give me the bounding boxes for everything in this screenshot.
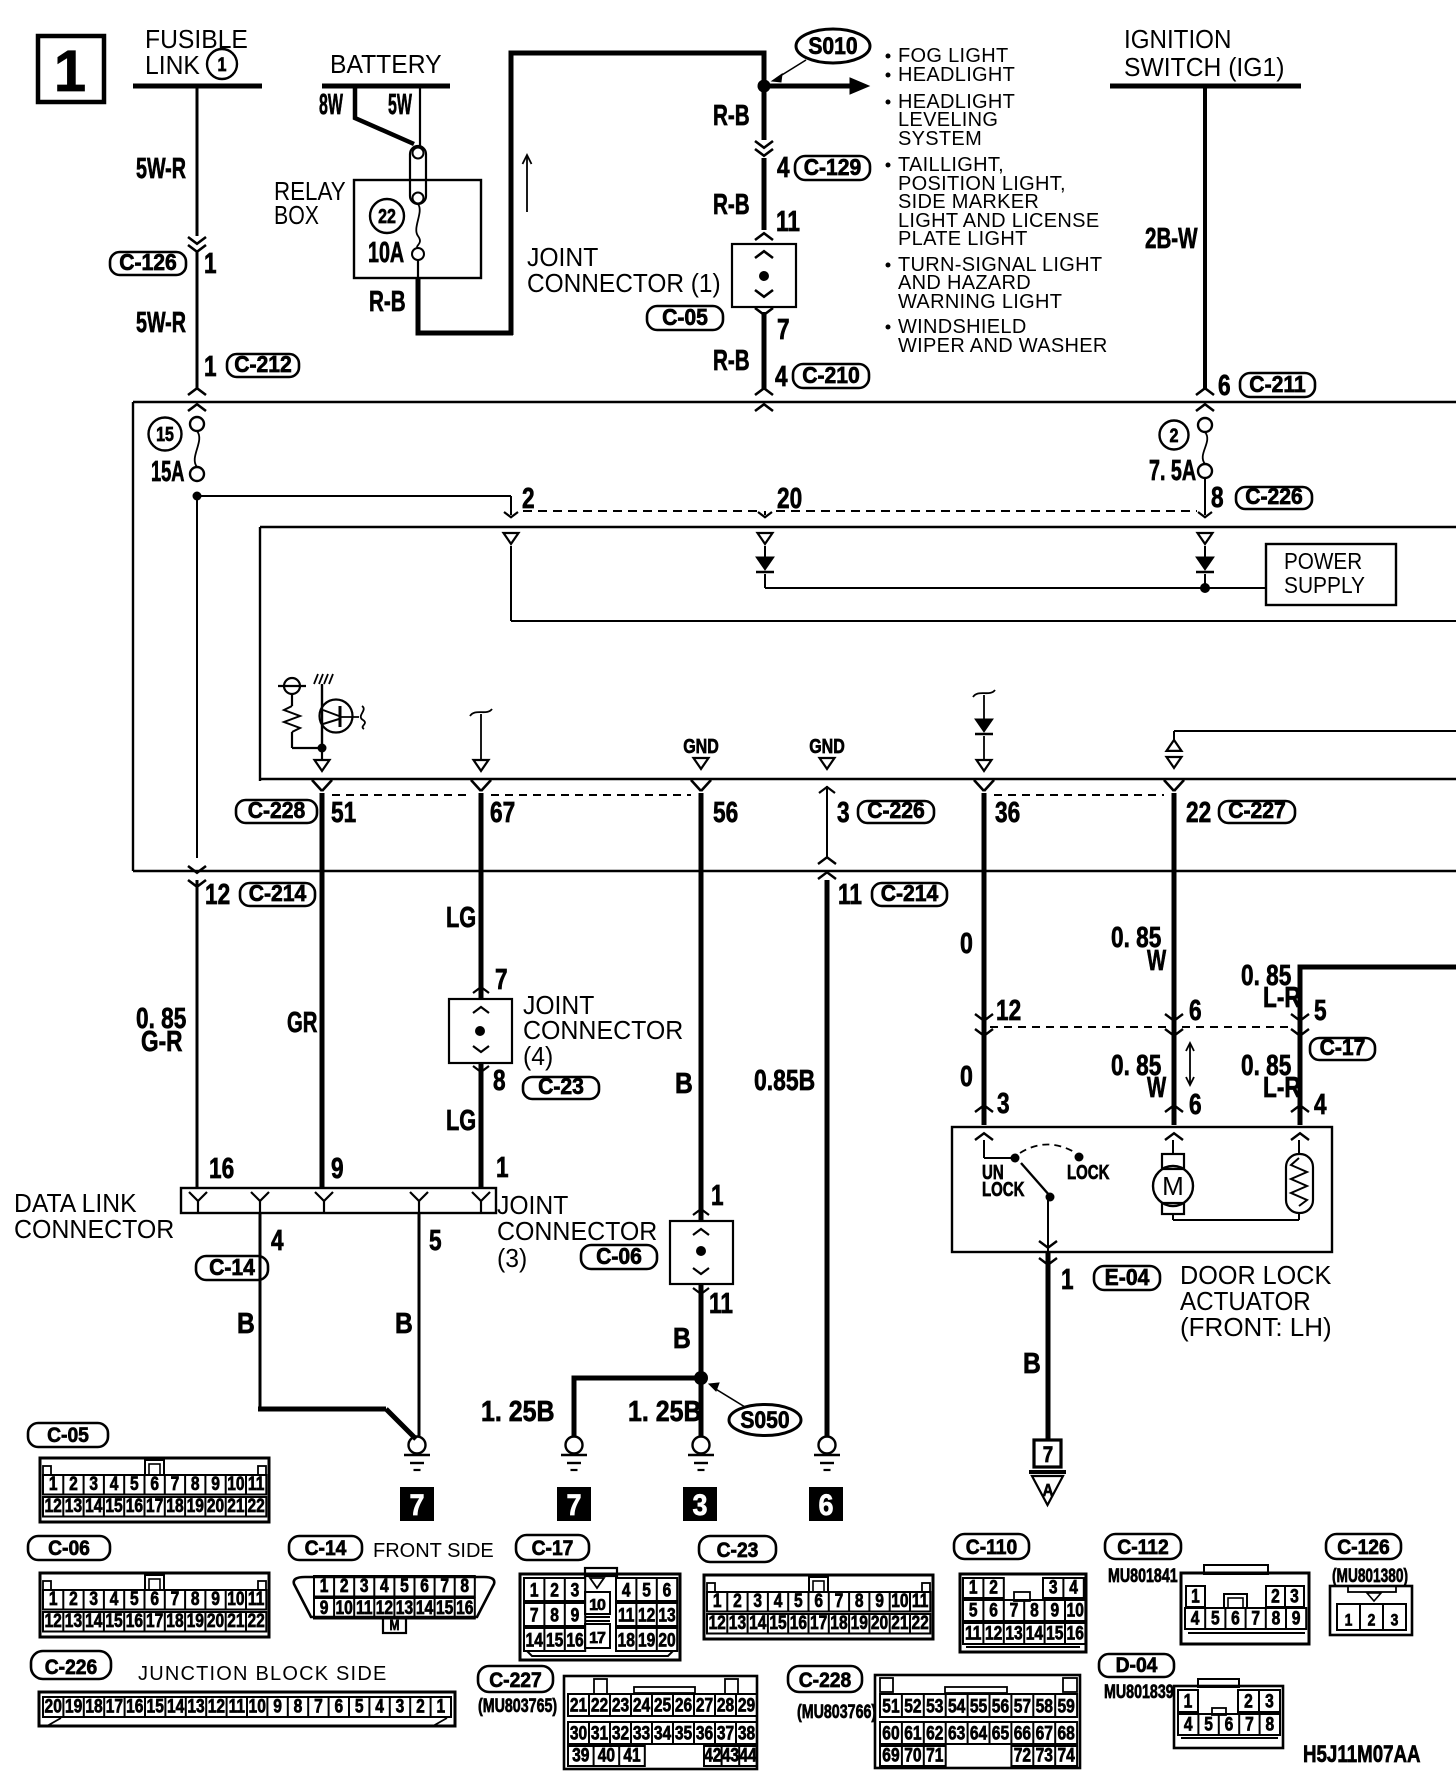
svg-text:12: 12 xyxy=(638,1604,655,1626)
svg-text:1: 1 xyxy=(204,349,217,382)
svg-text:1: 1 xyxy=(530,1579,539,1601)
svg-text:8: 8 xyxy=(1272,1607,1281,1629)
connector crossing C-210 into junction block xyxy=(755,388,773,395)
svg-text:1: 1 xyxy=(1345,1611,1353,1630)
svg-text:6: 6 xyxy=(420,1575,429,1597)
connector pinout C-05 xyxy=(40,1458,269,1522)
svg-text:SWITCH (IG1): SWITCH (IG1) xyxy=(1124,53,1284,82)
svg-text:GR: GR xyxy=(287,1007,317,1039)
svg-text:14: 14 xyxy=(85,1495,103,1517)
svg-text:11: 11 xyxy=(356,1597,373,1619)
svg-text:60: 60 xyxy=(882,1722,899,1744)
svg-text:6: 6 xyxy=(1189,993,1202,1026)
svg-text:E-04: E-04 xyxy=(1105,1264,1150,1290)
svg-text:1: 1 xyxy=(496,1150,509,1183)
svg-text:2: 2 xyxy=(1244,1690,1253,1712)
svg-text:PLATE LIGHT: PLATE LIGHT xyxy=(898,228,1028,250)
module pin 2 input triangle xyxy=(504,533,519,544)
wire 2B-W xyxy=(1203,88,1207,390)
door lock actuator labels xyxy=(1094,1266,1160,1290)
wire 5W-R from fusible link xyxy=(196,88,199,236)
svg-text:11: 11 xyxy=(248,1473,265,1495)
svg-text:26: 26 xyxy=(675,1694,693,1716)
svg-text:1: 1 xyxy=(1191,1585,1200,1607)
svg-text:C-227: C-227 xyxy=(489,1669,542,1692)
svg-text:3: 3 xyxy=(89,1588,98,1610)
ground for left 1.25B xyxy=(566,1437,583,1454)
svg-text:A: A xyxy=(1042,1480,1053,1500)
svg-text:5: 5 xyxy=(1204,1713,1213,1735)
svg-text:15: 15 xyxy=(105,1610,123,1632)
squiggle net at pin 67 xyxy=(470,709,492,716)
module pin 8 input triangle xyxy=(1198,533,1213,544)
svg-text:C-228: C-228 xyxy=(799,1669,852,1692)
svg-text:66: 66 xyxy=(1014,1722,1032,1744)
svg-text:3: 3 xyxy=(837,795,850,828)
svg-text:7: 7 xyxy=(171,1473,180,1495)
svg-text:15: 15 xyxy=(105,1495,123,1517)
svg-text:15: 15 xyxy=(156,423,174,445)
svg-text:1: 1 xyxy=(1184,1690,1193,1712)
load list bullets and items xyxy=(886,54,891,59)
svg-text:15: 15 xyxy=(147,1695,165,1717)
splice S050 bus xyxy=(572,1376,702,1381)
data link connector box C-14 xyxy=(181,1188,496,1213)
svg-text:14: 14 xyxy=(167,1695,185,1717)
module pin 3 output triangle xyxy=(820,758,835,769)
svg-text:44: 44 xyxy=(739,1744,757,1766)
svg-text:32: 32 xyxy=(612,1722,629,1744)
svg-text:W: W xyxy=(1147,945,1166,977)
svg-text:19: 19 xyxy=(65,1695,83,1717)
svg-text:19: 19 xyxy=(187,1495,205,1517)
arrow up beside joint connector wire xyxy=(526,157,528,212)
connector pinout C-14 front side xyxy=(294,1577,495,1617)
svg-text:B: B xyxy=(395,1307,413,1339)
connector pinout C-227 xyxy=(564,1676,757,1769)
svg-text:11: 11 xyxy=(618,1604,635,1626)
svg-text:20: 20 xyxy=(871,1612,888,1634)
svg-text:1: 1 xyxy=(436,1695,445,1717)
connector row branch Y at pin 36 xyxy=(974,780,984,791)
svg-text:B: B xyxy=(673,1322,691,1354)
svg-text:C-112: C-112 xyxy=(1117,1536,1169,1559)
svg-text:C-06: C-06 xyxy=(596,1243,642,1269)
svg-text:30: 30 xyxy=(570,1722,587,1744)
svg-text:3: 3 xyxy=(997,1086,1010,1119)
connector row labels xyxy=(236,800,317,823)
svg-text:59: 59 xyxy=(1057,1695,1075,1717)
wire R-B from relay box to joint connector loop xyxy=(417,260,419,278)
wire 8W from battery xyxy=(355,88,414,144)
pin 6 entry chevrons xyxy=(1165,1105,1183,1112)
fuse 2 element 7.5A xyxy=(1198,418,1212,432)
wire B pin 56 to joint connector 3 xyxy=(699,793,704,1221)
svg-text:3: 3 xyxy=(571,1579,580,1601)
svg-text:6: 6 xyxy=(1189,1087,1202,1120)
svg-text:2: 2 xyxy=(1368,1611,1376,1630)
connector pinout C-126 xyxy=(1330,1586,1412,1635)
svg-text:C-05: C-05 xyxy=(47,1424,89,1447)
svg-text:2: 2 xyxy=(416,1695,425,1717)
diode net at pin 36 xyxy=(973,690,995,697)
svg-text:16: 16 xyxy=(1067,1622,1085,1644)
connector pinout C-17 xyxy=(585,1568,617,1576)
svg-text:8: 8 xyxy=(550,1604,559,1626)
svg-text:62: 62 xyxy=(926,1722,943,1744)
svg-text:5: 5 xyxy=(794,1590,803,1612)
svg-text:43: 43 xyxy=(722,1744,740,1766)
svg-text:68: 68 xyxy=(1057,1722,1075,1744)
svg-text:1: 1 xyxy=(49,1588,58,1610)
wire R-B below joint connector 1 xyxy=(762,312,767,390)
module pin 51 output triangle xyxy=(321,752,323,759)
svg-text:S050: S050 xyxy=(740,1407,789,1434)
wire 0.85 G-R to data link connector pin 16 xyxy=(196,880,199,1188)
svg-text:65: 65 xyxy=(992,1722,1010,1744)
svg-text:4: 4 xyxy=(775,359,788,392)
svg-text:CONNECTOR (1): CONNECTOR (1) xyxy=(527,269,721,298)
svg-text:16: 16 xyxy=(126,1610,144,1632)
connector pinout C-05 label xyxy=(28,1423,108,1447)
svg-text:18: 18 xyxy=(166,1495,184,1517)
svg-text:2: 2 xyxy=(1271,1585,1280,1607)
fusible link bus bar xyxy=(133,84,262,89)
svg-text:8: 8 xyxy=(855,1590,864,1612)
svg-text:3: 3 xyxy=(1391,1611,1399,1630)
wire 0 pin 36 to door lock actuator pin 3 xyxy=(982,793,987,1125)
svg-text:11: 11 xyxy=(709,1286,733,1319)
svg-text:G-R: G-R xyxy=(141,1024,183,1057)
page number 1 box xyxy=(38,36,104,102)
connector pinout C-23 xyxy=(704,1575,933,1639)
svg-text:FUSIBLE: FUSIBLE xyxy=(145,25,248,54)
node unlock pivot dot xyxy=(1011,1154,1020,1163)
wire G-R down left side of junction block xyxy=(196,500,198,858)
svg-text:10: 10 xyxy=(249,1695,266,1717)
joint connector 3 (C-06) xyxy=(693,1209,709,1215)
fuse 22 circle xyxy=(370,199,404,233)
svg-text:5W-R: 5W-R xyxy=(136,153,186,185)
svg-text:4: 4 xyxy=(774,1590,783,1612)
svg-text:0: 0 xyxy=(960,926,973,959)
dashed lock arc xyxy=(1020,1145,1076,1154)
ground for right 1.25B xyxy=(693,1437,710,1454)
svg-text:9: 9 xyxy=(1292,1607,1301,1629)
svg-text:20: 20 xyxy=(207,1610,224,1632)
svg-text:5W: 5W xyxy=(388,88,413,120)
wire 1.25B right branch to ground xyxy=(699,1378,704,1437)
svg-text:13: 13 xyxy=(187,1695,205,1717)
module pin 56 output triangle xyxy=(694,758,709,769)
svg-text:8: 8 xyxy=(460,1575,469,1597)
svg-text:(FRONT: LH): (FRONT: LH) xyxy=(1180,1312,1332,1342)
svg-text:4: 4 xyxy=(622,1579,631,1601)
svg-text:C-210: C-210 xyxy=(802,362,860,388)
ground id 3 box xyxy=(684,1488,716,1520)
svg-text:WARNING LIGHT: WARNING LIGHT xyxy=(898,291,1062,313)
svg-text:7: 7 xyxy=(1251,1607,1260,1629)
svg-text:7: 7 xyxy=(314,1695,323,1717)
svg-text:B: B xyxy=(1023,1347,1041,1379)
svg-text:17: 17 xyxy=(106,1695,123,1717)
svg-text:40: 40 xyxy=(598,1744,615,1766)
svg-text:C-214: C-214 xyxy=(249,880,307,906)
wire B joint connector 3 to splice S050 xyxy=(699,1284,704,1378)
svg-text:8: 8 xyxy=(1030,1599,1039,1621)
svg-text:(4): (4) xyxy=(523,1042,553,1071)
diode at pin 8 xyxy=(1204,546,1206,557)
svg-text:9: 9 xyxy=(1050,1599,1059,1621)
svg-text:12: 12 xyxy=(208,1695,225,1717)
svg-text:70: 70 xyxy=(904,1744,921,1766)
svg-text:1: 1 xyxy=(711,1178,724,1211)
svg-text:67: 67 xyxy=(490,795,515,828)
svg-text:16: 16 xyxy=(126,1695,144,1717)
connector pinout C-228 xyxy=(875,1675,1080,1768)
svg-text:38: 38 xyxy=(738,1722,756,1744)
pin 4 entry chevrons xyxy=(1291,1105,1309,1112)
svg-text:29: 29 xyxy=(738,1694,756,1716)
svg-text:C-05: C-05 xyxy=(662,304,708,330)
motor M xyxy=(1172,1140,1174,1154)
connector pinout C-06 xyxy=(40,1573,269,1637)
switch blade xyxy=(1021,1163,1050,1196)
svg-text:6: 6 xyxy=(150,1588,159,1610)
connector row branch Y at pin 22 xyxy=(1164,780,1174,791)
svg-text:4: 4 xyxy=(1314,1087,1327,1120)
svg-text:13: 13 xyxy=(729,1612,747,1634)
svg-text:9: 9 xyxy=(331,1151,344,1184)
svg-text:M: M xyxy=(1162,1171,1184,1201)
svg-text:39: 39 xyxy=(572,1744,590,1766)
svg-text:11: 11 xyxy=(248,1588,265,1610)
svg-text:B: B xyxy=(237,1307,255,1339)
svg-text:R-B: R-B xyxy=(713,189,750,221)
svg-text:5: 5 xyxy=(969,1599,978,1621)
svg-text:7: 7 xyxy=(835,1590,844,1612)
svg-text:15: 15 xyxy=(546,1629,564,1651)
svg-text:MU801841: MU801841 xyxy=(1108,1565,1178,1586)
svg-text:3: 3 xyxy=(1290,1585,1299,1607)
svg-text:LINK: LINK xyxy=(145,51,200,80)
svg-text:14: 14 xyxy=(1026,1622,1044,1644)
svg-text:34: 34 xyxy=(654,1722,672,1744)
svg-text:3: 3 xyxy=(692,1489,707,1523)
svg-text:7: 7 xyxy=(566,1489,581,1523)
wire 5W from battery xyxy=(419,88,421,147)
svg-text:1: 1 xyxy=(49,1473,58,1495)
svg-text:18: 18 xyxy=(166,1610,184,1632)
svg-text:C-228: C-228 xyxy=(248,797,306,823)
ground id 7 box second xyxy=(558,1488,590,1520)
connector pinout C-112 xyxy=(1204,1565,1268,1574)
svg-text:11: 11 xyxy=(912,1590,929,1612)
svg-text:42: 42 xyxy=(704,1744,721,1766)
svg-text:4: 4 xyxy=(1191,1607,1200,1629)
svg-text:7. 5A: 7. 5A xyxy=(1149,455,1196,487)
svg-text:41: 41 xyxy=(623,1744,641,1766)
svg-text:13: 13 xyxy=(658,1604,676,1626)
svg-text:20: 20 xyxy=(207,1495,224,1517)
svg-text:4: 4 xyxy=(380,1575,389,1597)
splice S050 label xyxy=(729,1405,801,1436)
svg-text:13: 13 xyxy=(65,1495,83,1517)
svg-text:19: 19 xyxy=(187,1610,205,1632)
svg-text:7: 7 xyxy=(1043,1444,1053,1468)
svg-text:24: 24 xyxy=(633,1694,651,1716)
joint connector 4 (C-23) xyxy=(473,987,489,993)
connector pinout D-04 label xyxy=(1099,1654,1174,1677)
wire GR pin 51 to data link connector pin 9 xyxy=(320,793,325,1188)
svg-text:33: 33 xyxy=(633,1722,651,1744)
svg-text:15: 15 xyxy=(436,1597,454,1619)
svg-text:54: 54 xyxy=(948,1695,966,1717)
svg-text:19: 19 xyxy=(638,1629,656,1651)
svg-text:C-211: C-211 xyxy=(1249,371,1305,397)
svg-text:4: 4 xyxy=(110,1588,119,1610)
svg-text:22: 22 xyxy=(591,1694,608,1716)
module pin 36 output triangle xyxy=(977,760,992,771)
svg-text:10: 10 xyxy=(227,1588,244,1610)
svg-text:C-129: C-129 xyxy=(804,154,862,180)
svg-text:8W: 8W xyxy=(319,88,344,120)
node lock contact dot xyxy=(1075,1153,1084,1162)
svg-text:C-14: C-14 xyxy=(209,1254,256,1280)
svg-text:55: 55 xyxy=(970,1695,988,1717)
svg-text:DATA LINK: DATA LINK xyxy=(14,1189,137,1218)
svg-text:3: 3 xyxy=(396,1695,405,1717)
svg-text:C-17: C-17 xyxy=(532,1537,574,1560)
svg-text:12: 12 xyxy=(376,1597,393,1619)
svg-text:CONNECTOR: CONNECTOR xyxy=(497,1218,657,1247)
wire R-B below S010 xyxy=(762,88,767,140)
svg-text:6: 6 xyxy=(150,1473,159,1495)
svg-text:4: 4 xyxy=(1184,1713,1193,1735)
svg-text:L-R: L-R xyxy=(1263,980,1301,1013)
svg-text:36: 36 xyxy=(995,795,1020,828)
wire LG pin 67 to joint connector 4 xyxy=(479,793,484,999)
svg-text:6: 6 xyxy=(1225,1713,1234,1735)
svg-text:9: 9 xyxy=(211,1473,220,1495)
connector pinout C-228 label xyxy=(788,1666,862,1692)
svg-text:63: 63 xyxy=(948,1722,966,1744)
connector row branch Y at pin 56 xyxy=(691,780,701,791)
node S010 junction dot xyxy=(758,80,771,93)
svg-text:8: 8 xyxy=(1265,1713,1274,1735)
wire 0.85B pin 3 to ground xyxy=(825,880,830,1437)
fuse 15 circle xyxy=(149,418,182,451)
svg-text:5: 5 xyxy=(1211,1607,1220,1629)
svg-text:(MU801380): (MU801380) xyxy=(1332,1565,1408,1587)
svg-text:35: 35 xyxy=(675,1722,693,1744)
svg-text:17: 17 xyxy=(589,1630,606,1647)
svg-text:4: 4 xyxy=(271,1223,284,1256)
svg-text:9: 9 xyxy=(320,1597,329,1619)
wire from fuse 15 to pin 2 xyxy=(197,495,511,497)
ignition switch bus bar xyxy=(1110,84,1301,89)
wire to pin 22 inside module xyxy=(1174,730,1456,732)
junction block outer box xyxy=(133,401,1456,403)
svg-text:13: 13 xyxy=(65,1610,83,1632)
svg-text:67: 67 xyxy=(1036,1722,1053,1744)
svg-text:2: 2 xyxy=(733,1590,742,1612)
svg-text:FRONT SIDE: FRONT SIDE xyxy=(373,1540,494,1562)
svg-text:11: 11 xyxy=(229,1695,246,1717)
wire 1.25B left branch to ground xyxy=(572,1378,577,1437)
svg-text:10: 10 xyxy=(589,1597,606,1614)
svg-text:2: 2 xyxy=(69,1588,78,1610)
module pin 67 output triangle xyxy=(474,760,489,771)
svg-text:1: 1 xyxy=(713,1590,722,1612)
svg-text:56: 56 xyxy=(992,1695,1010,1717)
svg-text:3: 3 xyxy=(360,1575,369,1597)
svg-text:C-23: C-23 xyxy=(717,1539,759,1562)
svg-text:21: 21 xyxy=(570,1694,588,1716)
svg-text:JOINT: JOINT xyxy=(497,1191,568,1220)
svg-text:53: 53 xyxy=(926,1695,944,1717)
svg-text:71: 71 xyxy=(926,1744,944,1766)
connector C-126 inline xyxy=(188,237,206,244)
svg-text:1: 1 xyxy=(969,1576,978,1598)
svg-text:B: B xyxy=(675,1067,693,1099)
svg-text:12: 12 xyxy=(44,1495,61,1517)
svg-text:6: 6 xyxy=(334,1695,343,1717)
svg-text:8: 8 xyxy=(493,1063,506,1096)
svg-text:9: 9 xyxy=(875,1590,884,1612)
svg-text:21: 21 xyxy=(891,1612,909,1634)
svg-text:25: 25 xyxy=(654,1694,672,1716)
ground for data link wires xyxy=(409,1437,426,1454)
wire 0.85 W pin 22 to door lock actuator pin 6 xyxy=(1172,793,1177,1125)
power supply box xyxy=(1266,544,1396,605)
svg-text:5: 5 xyxy=(130,1473,139,1495)
svg-text:4: 4 xyxy=(110,1473,119,1495)
connector crossing C-211 into junction block xyxy=(1196,388,1214,395)
svg-text:3: 3 xyxy=(89,1473,98,1495)
svg-text:6: 6 xyxy=(663,1579,672,1601)
svg-text:6: 6 xyxy=(989,1599,998,1621)
svg-text:W: W xyxy=(1147,1072,1166,1104)
wire from switch to pin 1 xyxy=(1047,1199,1049,1252)
dashed connector row C-17 xyxy=(990,1026,1166,1028)
svg-text:21: 21 xyxy=(227,1610,245,1632)
svg-text:GND: GND xyxy=(683,735,719,757)
svg-text:28: 28 xyxy=(717,1694,735,1716)
relay box xyxy=(354,180,481,278)
svg-text:C-126: C-126 xyxy=(119,249,177,275)
connector pinout C-112 label xyxy=(1105,1534,1181,1559)
svg-text:20: 20 xyxy=(777,481,802,514)
svg-text:5: 5 xyxy=(355,1695,364,1717)
svg-text:51: 51 xyxy=(331,795,356,828)
svg-text:12: 12 xyxy=(205,877,230,910)
svg-text:15: 15 xyxy=(1046,1622,1064,1644)
svg-text:57: 57 xyxy=(1014,1695,1031,1717)
svg-text:14: 14 xyxy=(526,1629,544,1651)
svg-text:C-226: C-226 xyxy=(45,1656,98,1679)
connector pinout C-06 label xyxy=(28,1536,110,1560)
svg-text:7: 7 xyxy=(495,962,508,995)
svg-text:18: 18 xyxy=(85,1695,103,1717)
svg-text:17: 17 xyxy=(146,1610,163,1632)
svg-text:5: 5 xyxy=(429,1223,442,1256)
svg-text:LG: LG xyxy=(446,902,476,934)
svg-text:C-226: C-226 xyxy=(1245,483,1303,509)
connector pinout C-23 label xyxy=(699,1536,776,1562)
connector row C-228 branch Y at pin 51 xyxy=(312,780,322,791)
svg-text:14: 14 xyxy=(85,1610,103,1632)
